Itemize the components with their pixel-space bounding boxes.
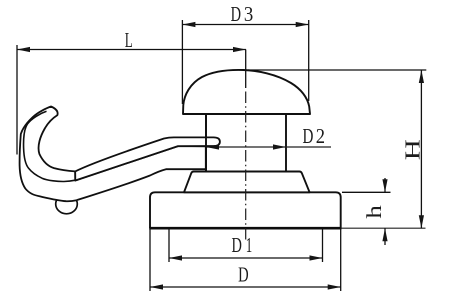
svg-text:D: D (231, 2, 241, 26)
svg-text:H: H (401, 139, 425, 160)
svg-text:D: D (238, 263, 249, 287)
svg-text:L: L (125, 28, 133, 52)
svg-text:1: 1 (246, 233, 253, 257)
svg-text:D: D (232, 233, 242, 257)
svg-text:3: 3 (244, 2, 253, 26)
svg-text:D: D (303, 124, 314, 148)
svg-text:h: h (362, 205, 386, 219)
svg-text:2: 2 (316, 124, 325, 148)
